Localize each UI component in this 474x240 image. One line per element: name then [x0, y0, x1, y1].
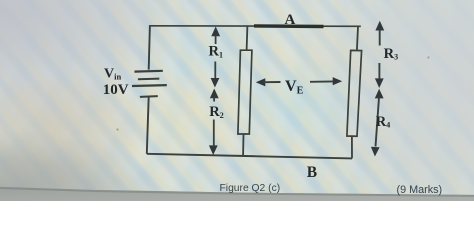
- wire middle branch upper: [246, 26, 249, 50]
- R1 dimension arrow down head: [211, 78, 220, 88]
- VE arrow left: [256, 78, 265, 86]
- svg-text:Vin: Vin: [104, 66, 121, 81]
- R3 dimension arrow down head: [375, 78, 384, 88]
- R3 dimension arrow up head: [375, 21, 384, 31]
- battery V1 plate 1: [135, 70, 163, 73]
- resistor box right (R3+R4 element): [347, 50, 362, 136]
- wire bottom: [147, 154, 352, 159]
- gray table area below page: [0, 185, 474, 201]
- svg-text:A: A: [285, 12, 296, 28]
- R4 dimension arrow up head: [375, 89, 384, 99]
- VE arrow right shaft: [310, 80, 335, 82]
- R2 arrow shaft upper: [213, 97, 215, 102]
- R3 arrow shaft lower: [378, 63, 380, 79]
- svg-text:10V: 10V: [103, 82, 129, 98]
- R2 arrow shaft lower: [213, 120, 215, 147]
- svg-text:R4: R4: [376, 114, 390, 130]
- svg-text:Figure Q2 (c): Figure Q2 (c): [220, 183, 281, 194]
- svg-text:R3: R3: [384, 46, 398, 62]
- R3 arrow shaft upper: [379, 30, 381, 46]
- wire right branch lower: [351, 136, 353, 158]
- VE arrow right: [333, 77, 343, 85]
- R4 dimension arrow down head: [371, 147, 380, 157]
- svg-text:VE: VE: [285, 78, 304, 97]
- svg-text:(9 Marks): (9 Marks): [397, 184, 443, 196]
- R2 dimension arrow up head: [210, 89, 219, 99]
- R1 arrow shaft upper: [215, 35, 217, 44]
- R4 arrow shaft upper: [376, 97, 380, 146]
- VE arrow left shaft: [264, 81, 281, 83]
- resistor box middle (R1+R2 element): [238, 50, 252, 134]
- battery V1 plate 3: [132, 84, 167, 87]
- battery V1 plate 2: [138, 78, 159, 81]
- R1 arrow shaft lower: [214, 62, 216, 80]
- wire left lower: [147, 97, 149, 154]
- R1 dimension arrow up head: [211, 27, 220, 37]
- battery V1 plate 4: [140, 95, 158, 98]
- wire left upper: [149, 25, 150, 69]
- wire right branch upper: [357, 26, 358, 50]
- page bottom edge shadow: [0, 185, 474, 201]
- bottom-left corner shadow: [0, 118, 240, 201]
- wire top: [149, 25, 360, 28]
- R2 dimension arrow down head: [209, 145, 218, 155]
- wire middle branch lower: [242, 134, 244, 156]
- svg-text:R2: R2: [209, 104, 223, 120]
- svg-text:R1: R1: [209, 44, 223, 60]
- svg-text:B: B: [307, 164, 317, 181]
- node A bold wire segment: [254, 24, 324, 28]
